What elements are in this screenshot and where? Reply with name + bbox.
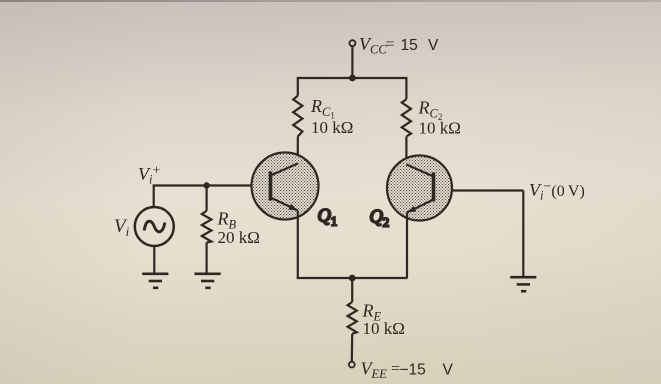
wire RB to ground [206,243,208,273]
svg-text:10 kΩ: 10 kΩ [419,119,461,138]
svg-text:RC1: RC1 [310,96,335,121]
svg-text:Vi: Vi [114,216,130,239]
svg-text:20 kΩ: 20 kΩ [218,228,260,247]
wire bottom rail [298,277,407,278]
svg-text:Q1: Q1 [318,207,338,229]
wire base Q2 [434,189,523,191]
svg-text:10 kΩ: 10 kΩ [363,319,405,338]
wire RC2 to Q2 collector [405,137,407,165]
node VEE terminal [349,362,355,368]
junction top rail [349,75,356,82]
svg-text:10 kΩ: 10 kΩ [311,118,353,137]
ground RB [195,274,221,288]
source Vi [135,207,174,246]
resistor RE [348,302,357,334]
wire source to ground [153,246,155,273]
wire base node to RB [206,186,208,211]
transistor Q1 [252,153,319,220]
resistor RB [202,211,212,243]
wire bottom junction to RE [351,278,353,302]
wire Q2 emitter to bottom rail [406,213,408,279]
wire RE to VEE terminal [351,334,354,362]
node VCC terminal [349,40,355,46]
wire Q1 emitter to bottom rail [297,211,299,279]
resistor RC2 [402,99,411,136]
svg-text:VCC=15V: VCC=15V [359,34,439,57]
wire top rail [298,78,407,99]
svg-text:Q2: Q2 [370,208,390,230]
wire base Q1 [154,186,270,208]
svg-text:VEE=−15V: VEE=−15V [361,359,454,382]
svg-text:Vi+: Vi+ [138,164,160,187]
wire VCC to top rail [351,46,353,78]
ground right [510,277,536,291]
wire RC1 to Q1 collector [297,137,299,165]
junction base node [203,182,209,188]
svg-text:Vi−(0 V): Vi−(0 V) [529,180,585,203]
ground source [142,274,168,288]
resistor RC1 [293,96,302,137]
transistor Q2 [387,156,452,221]
wire Q2 base to right ground [522,191,524,277]
junction bottom rail [349,275,356,282]
